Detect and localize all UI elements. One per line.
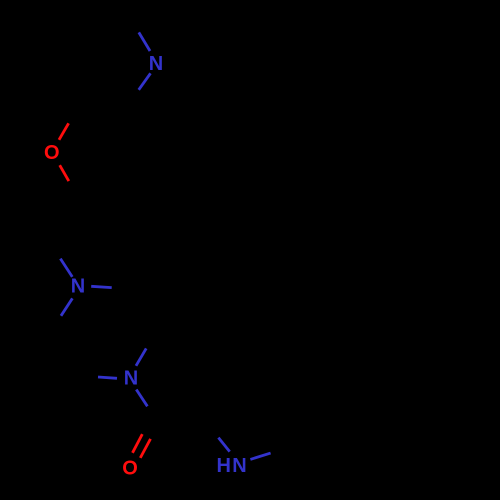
bond N2-C7 half (blue) (61, 298, 72, 315)
bond N1-CH3 half (blue) (139, 32, 150, 51)
bond N3-C9 half (blue) (98, 377, 117, 378)
bond N1-C2 half (blue) (139, 73, 151, 90)
bond N4-C11 half (blue) (218, 438, 229, 452)
bond N2-C6 half (blue) (91, 286, 112, 287)
svg-text:N: N (149, 53, 163, 75)
svg-text:N: N (124, 368, 138, 390)
bond O1-C4 half (red) (60, 165, 69, 181)
bond O1-C3 half (red) (59, 123, 69, 140)
bond N3-C10 half (blue) (136, 390, 147, 407)
svg-text:HN: HN (217, 455, 249, 477)
bond N3-C8 half (blue) (136, 348, 146, 365)
svg-text:O: O (122, 457, 138, 479)
svg-text:O: O (44, 142, 60, 164)
double bond C10=O2 line 1 half (red) (133, 434, 143, 453)
bond N2-C5 half (blue) (60, 259, 72, 277)
double bond C10=O2 line 2 half (red) (140, 439, 150, 458)
svg-text:N: N (71, 276, 85, 298)
bond N4-C12 half (blue) (250, 453, 270, 459)
